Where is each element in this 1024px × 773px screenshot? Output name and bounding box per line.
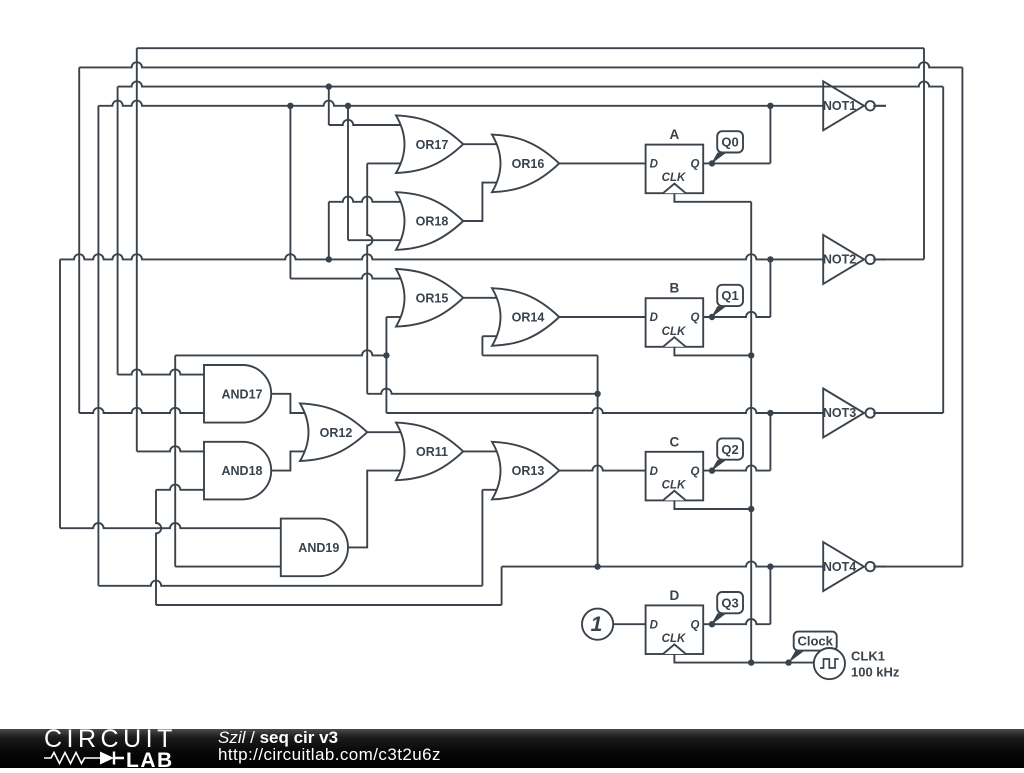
svg-text:AND18: AND18: [222, 464, 263, 478]
svg-text:OR17: OR17: [416, 138, 449, 152]
svg-text:OR12: OR12: [320, 426, 353, 440]
svg-text:OR13: OR13: [512, 464, 545, 478]
svg-text:NOT2: NOT2: [823, 253, 856, 267]
svg-text:D: D: [650, 312, 658, 324]
svg-text:CLK: CLK: [662, 326, 686, 338]
svg-text:NOT4: NOT4: [823, 560, 856, 574]
svg-text:OR16: OR16: [512, 157, 545, 171]
svg-text:Clock: Clock: [797, 634, 833, 649]
svg-text:NOT1: NOT1: [823, 99, 856, 113]
svg-text:Q: Q: [690, 466, 699, 478]
svg-text:Q2: Q2: [721, 442, 738, 457]
svg-text:Q: Q: [690, 312, 699, 324]
svg-text:CLK: CLK: [662, 479, 686, 491]
svg-text:Q3: Q3: [721, 595, 738, 610]
svg-text:B: B: [670, 281, 680, 296]
svg-text:D: D: [650, 466, 658, 478]
svg-text:OR14: OR14: [512, 311, 545, 325]
svg-text:CLK: CLK: [662, 633, 686, 645]
svg-text:AND17: AND17: [222, 387, 263, 401]
svg-text:D: D: [650, 159, 658, 171]
svg-text:100 kHz: 100 kHz: [851, 664, 900, 679]
svg-text:Q1: Q1: [721, 288, 738, 303]
svg-text:Q0: Q0: [721, 135, 738, 150]
svg-text:AND19: AND19: [298, 541, 339, 555]
svg-text:CLK1: CLK1: [851, 648, 885, 663]
svg-text:A: A: [670, 127, 680, 142]
svg-text:Q: Q: [690, 619, 699, 631]
svg-text:OR11: OR11: [416, 445, 448, 459]
svg-text:D: D: [670, 588, 680, 603]
svg-text:D: D: [650, 619, 658, 631]
svg-text:1: 1: [591, 613, 603, 636]
svg-text:CLK: CLK: [662, 172, 686, 184]
svg-text:OR15: OR15: [416, 291, 449, 305]
svg-text:Q: Q: [690, 159, 699, 171]
svg-text:C: C: [670, 434, 680, 449]
svg-text:OR18: OR18: [416, 215, 449, 229]
svg-text:NOT3: NOT3: [823, 406, 856, 420]
